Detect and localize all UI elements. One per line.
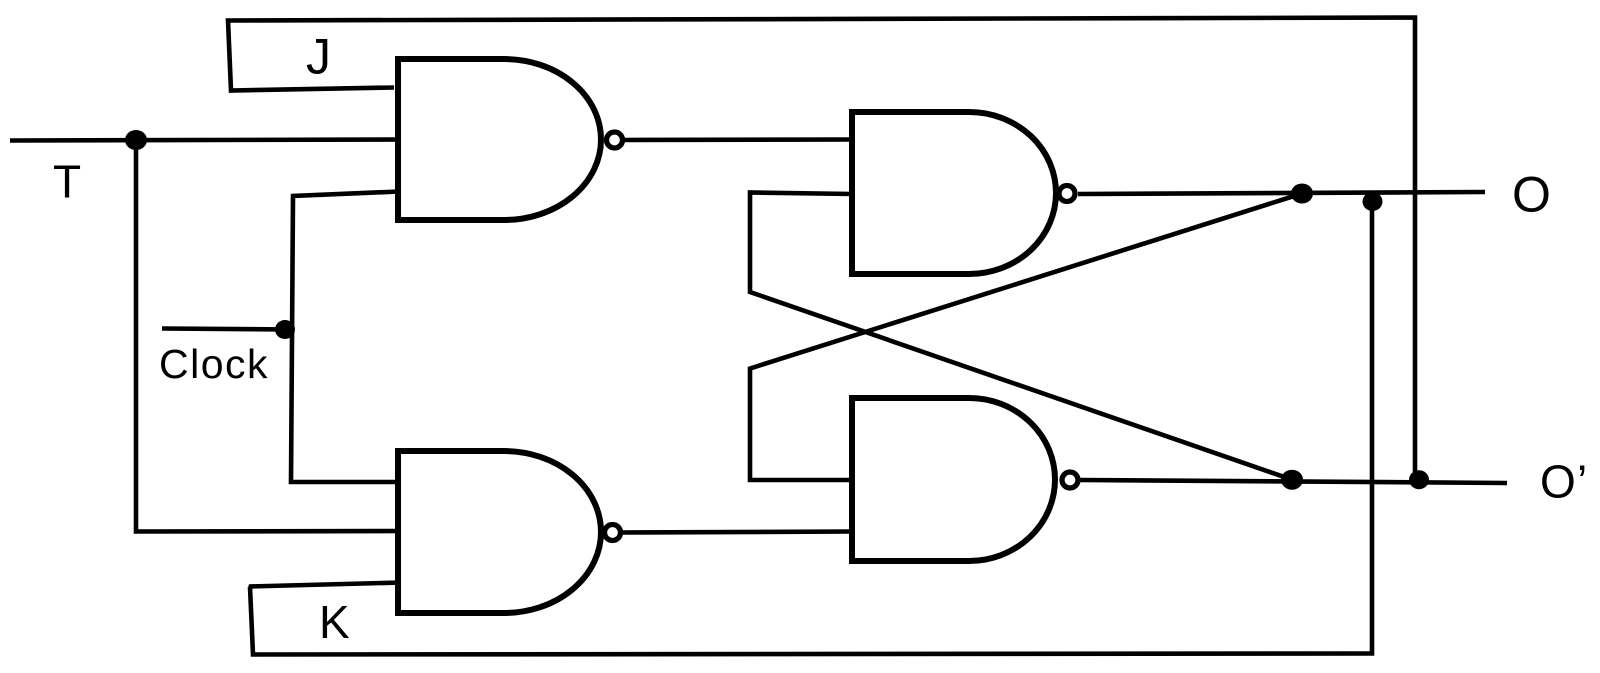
output bubble of U2 bbox=[605, 525, 621, 541]
wire: O' output line from gate4 bbox=[1080, 480, 1507, 483]
wire: Clock input stub bbox=[162, 329, 290, 330]
svg-text:O: O bbox=[1512, 167, 1551, 223]
junction dot: node T bbox=[125, 130, 147, 150]
svg-text:T: T bbox=[53, 156, 81, 208]
wire: top feedback from O' line up and across to J input bend bbox=[228, 18, 1415, 481]
junction dot: node O to cross-couple bbox=[1291, 184, 1313, 204]
NAND gate U4 (bottom-right latch gate, output O') bbox=[852, 398, 1055, 561]
junction dot: node Clock bbox=[275, 320, 295, 339]
output bubble of U4 bbox=[1062, 472, 1078, 488]
wire: cross-couple O node down to gate4 upper input bbox=[750, 194, 1302, 481]
NAND gate U2 (bottom-left, inputs Clock, T, K) bbox=[398, 451, 601, 613]
wire: gate2 output to gate4 input bbox=[622, 532, 853, 533]
NAND gate U1 (top-left, inputs J, T, Clock) bbox=[398, 59, 601, 220]
svg-text:Clock: Clock bbox=[159, 341, 269, 387]
wire: bottom feedback from O node down, across and up to K input bbox=[249, 201, 1372, 655]
wire: T branch vertical down to gate2 bbox=[136, 140, 399, 532]
output bubble of U3 bbox=[1059, 186, 1075, 202]
wire: cross-couple O' node up to gate3 lower input bbox=[750, 193, 1292, 480]
junction dot: node O' to cross-couple bbox=[1281, 470, 1303, 490]
wire: clock vertical branch to gate1 and gate2 bbox=[291, 192, 399, 483]
junction dot: node O' to top feedback bbox=[1409, 470, 1429, 489]
wire: gate1 output to gate3 input bbox=[624, 137, 853, 142]
svg-text:O: O bbox=[1540, 456, 1576, 508]
NAND gate U3 (top-right latch gate, output O) bbox=[852, 112, 1056, 274]
wire: T input line bbox=[10, 140, 399, 141]
svg-text:J: J bbox=[306, 29, 331, 85]
svg-text:’: ’ bbox=[1577, 456, 1587, 508]
junction dot: node O to bottom feedback bbox=[1363, 192, 1383, 211]
wire: O output line from gate3 bbox=[1078, 192, 1485, 194]
output bubble of U1 bbox=[607, 132, 623, 148]
svg-text:K: K bbox=[319, 596, 350, 648]
